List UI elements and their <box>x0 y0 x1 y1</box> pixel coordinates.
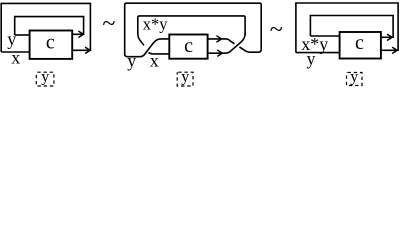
wire A': upper output of c down-right to outer loop bottom right <box>208 39 253 52</box>
svg-text:~: ~ <box>270 17 283 43</box>
arrowhead lower <box>85 47 90 53</box>
arrowhead upper mid <box>216 36 221 42</box>
svg-text:x: x <box>11 48 20 68</box>
outer feedback loop (x loop) <box>1 3 90 52</box>
svg-text:y: y <box>307 48 316 68</box>
wire y input <box>15 34 30 36</box>
svg-text:y: y <box>127 51 136 71</box>
arrowhead lower mid <box>217 50 222 56</box>
arrowhead lower right <box>392 47 397 53</box>
wire lower output <box>381 49 396 51</box>
svg-text:y: y <box>41 69 49 86</box>
svg-text:c: c <box>46 32 55 54</box>
inner feedback loop (y loop) <box>15 17 84 35</box>
wire upper output <box>72 33 82 35</box>
svg-text:y: y <box>181 69 189 86</box>
outer loop (y loop) with rounded bottom corners <box>125 3 262 57</box>
dashed box y (right bottom) <box>347 73 363 86</box>
wire x input <box>1 51 29 53</box>
inner loop (x*y loop) <box>310 16 393 39</box>
arrowhead upper right <box>387 34 392 40</box>
wire B': lower output of c up-right into inner loop right <box>208 34 246 54</box>
svg-text:c: c <box>355 32 364 54</box>
box c (middle) <box>169 35 207 59</box>
arrowhead upper <box>78 31 83 37</box>
wire A: from inner loop down-right into lower input of c (crossed under) <box>138 33 170 54</box>
svg-text:x*y: x*y <box>143 15 169 34</box>
wire x*y input <box>310 35 339 37</box>
svg-text:~: ~ <box>102 11 115 37</box>
wire upper output <box>381 36 391 38</box>
wire y input <box>296 52 340 54</box>
svg-text:c: c <box>184 35 193 57</box>
svg-text:y: y <box>350 69 358 86</box>
svg-text:x: x <box>150 51 159 71</box>
box c <box>30 31 73 59</box>
box c (right) <box>340 32 381 59</box>
dashed box y (middle bottom) <box>177 72 193 86</box>
svg-text:y: y <box>7 29 16 49</box>
wire B: from y wire up-right into upper input of c <box>140 39 169 57</box>
outer loop (y loop) <box>296 3 398 53</box>
wire lower output <box>72 49 89 51</box>
dashed box y (left bottom) <box>36 72 54 86</box>
inner loop (x loop) top <box>138 16 245 36</box>
